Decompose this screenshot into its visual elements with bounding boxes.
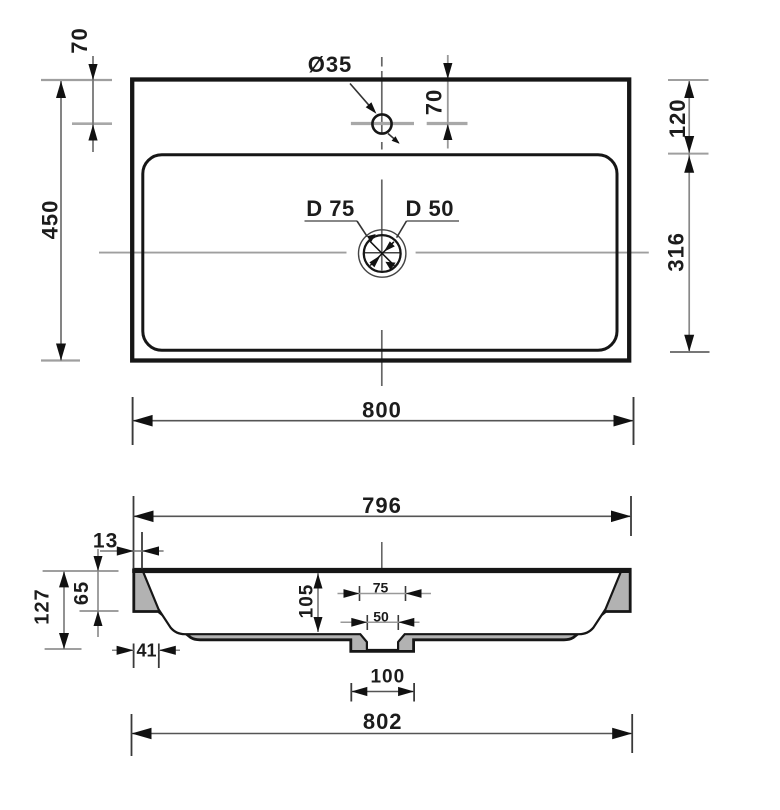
svg-text:127: 127: [32, 588, 54, 624]
svg-text:13: 13: [93, 530, 118, 553]
svg-text:800: 800: [362, 397, 402, 422]
svg-text:75: 75: [373, 580, 389, 596]
svg-text:100: 100: [370, 666, 405, 687]
svg-text:802: 802: [363, 709, 403, 734]
svg-text:105: 105: [296, 584, 317, 619]
svg-text:70: 70: [67, 27, 92, 53]
svg-text:41: 41: [136, 641, 156, 661]
svg-text:316: 316: [663, 232, 688, 272]
svg-text:796: 796: [362, 493, 402, 518]
svg-text:50: 50: [373, 609, 389, 625]
svg-text:70: 70: [421, 89, 446, 115]
svg-text:120: 120: [665, 98, 690, 138]
svg-text:450: 450: [37, 200, 62, 240]
svg-text:D 75: D 75: [306, 196, 354, 221]
svg-text:D 50: D 50: [406, 196, 454, 221]
svg-text:65: 65: [71, 581, 93, 605]
svg-text:Ø35: Ø35: [308, 52, 353, 77]
